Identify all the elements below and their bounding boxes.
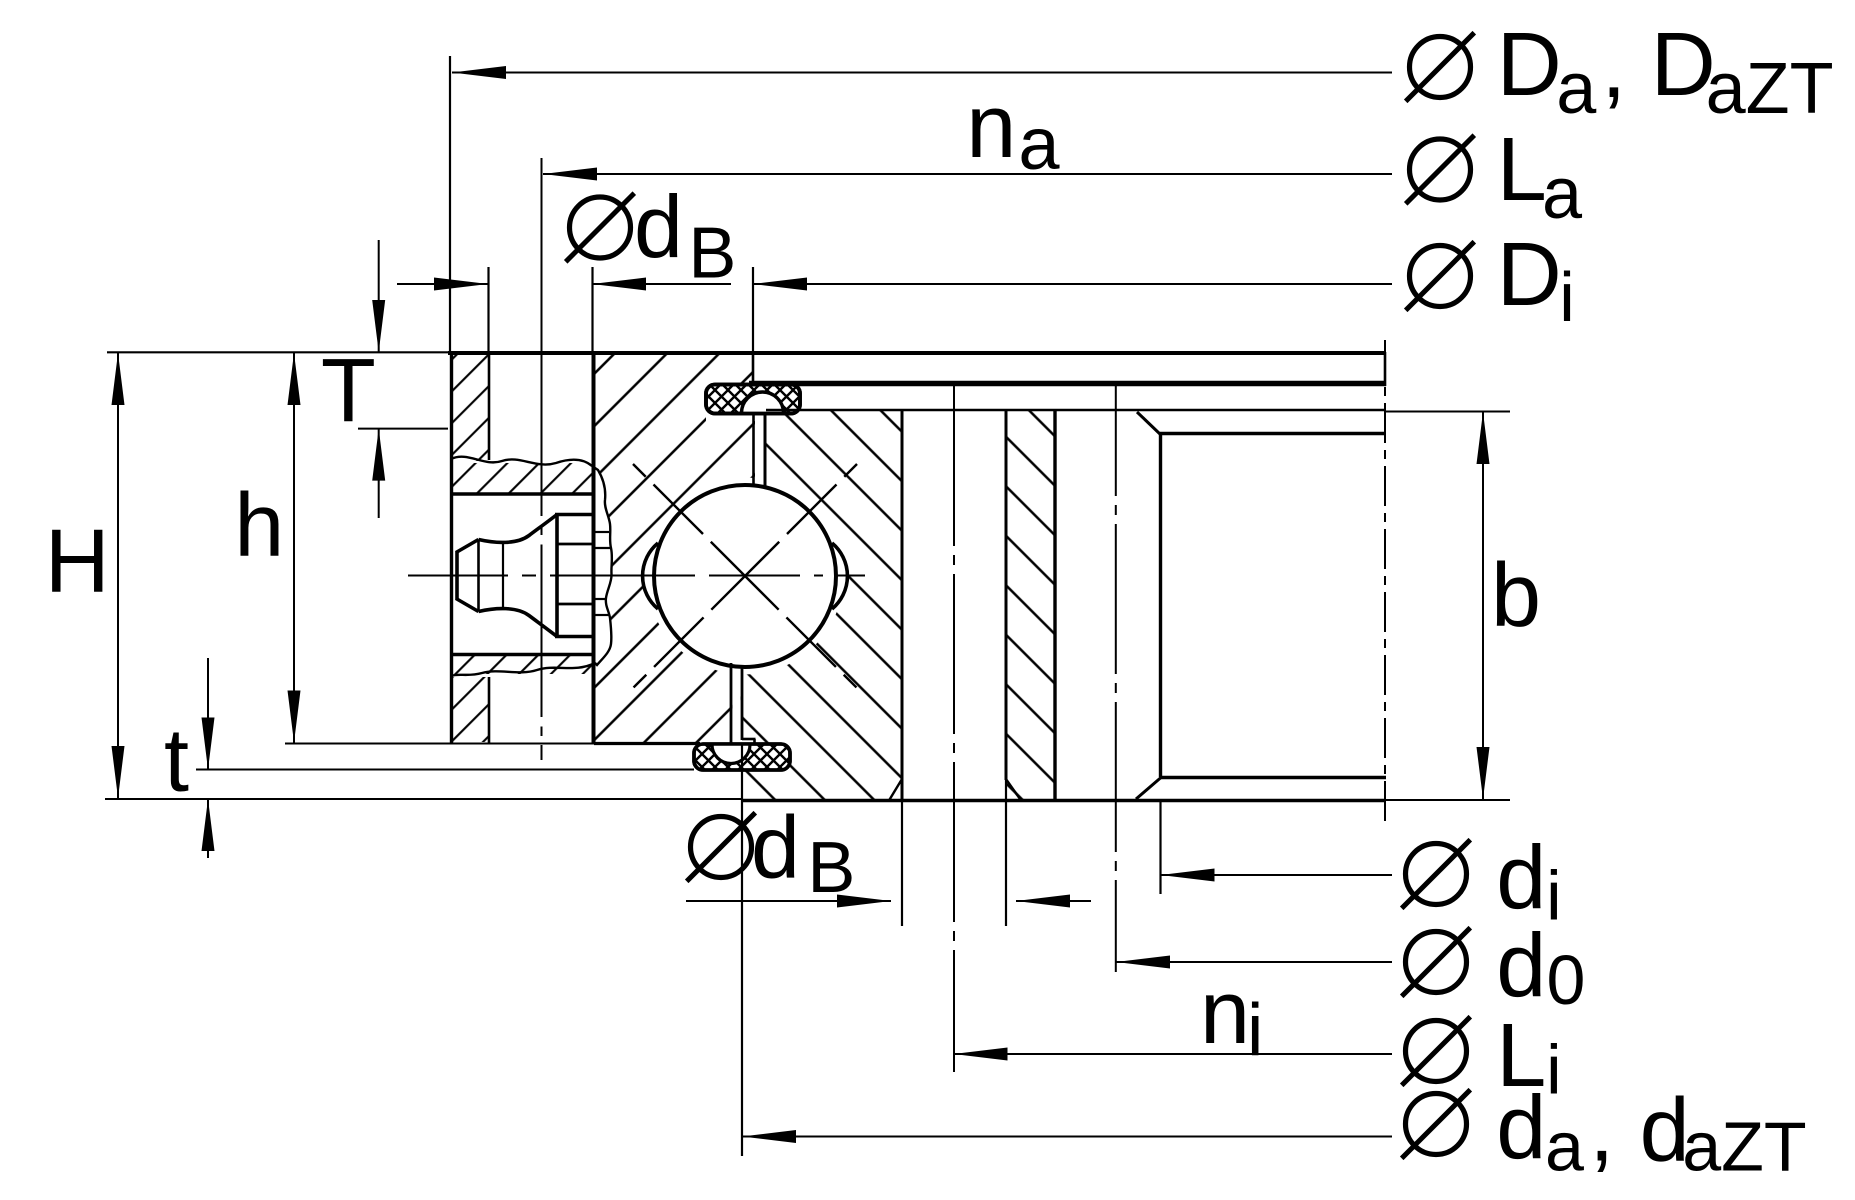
- diameter symbol Di: [1406, 242, 1475, 311]
- ring flange hatch band below counterbore: [451, 655, 592, 674]
- ball contact diagonal NE-SW: [633, 464, 857, 688]
- top seal: [706, 385, 800, 415]
- bolt hex facet line: [477, 540, 480, 612]
- counterbore bottom edge: [451, 653, 594, 657]
- svg-text:i: i: [1546, 857, 1562, 935]
- svg-text:aZT: aZT: [1706, 49, 1834, 129]
- svg-text:D: D: [1497, 15, 1562, 115]
- dimension line na/La: [543, 173, 1392, 175]
- dimension line di: [1161, 874, 1393, 876]
- svg-text:a: a: [1556, 49, 1597, 129]
- tapped hole thread lines: [595, 531, 609, 533]
- bolt washer split line top: [557, 543, 594, 546]
- bolt neck curve bottom: [479, 609, 558, 637]
- bolt washer split line bottom: [557, 603, 594, 606]
- bolt head chamfer bottom: [456, 599, 479, 612]
- ball centre line horizontal: [408, 575, 865, 577]
- ring flange hatch band above counterbore: [451, 463, 592, 494]
- extension line b bottom: [1386, 799, 1510, 801]
- svg-text:0: 0: [1547, 941, 1586, 1019]
- diameter symbol La: [1406, 135, 1475, 204]
- bolt washer bottom edge: [555, 635, 594, 639]
- svg-text:a: a: [1542, 154, 1583, 234]
- gear rim top chamfer: [1137, 412, 1161, 435]
- hole chamfer left: [889, 779, 902, 801]
- top joint gap lines: [752, 413, 755, 484]
- diameter symbol Da: [1406, 33, 1475, 102]
- diameter symbol dB top: [566, 193, 635, 262]
- ring flange hatch top-left column: [453, 353, 488, 461]
- dimension line Da: [452, 72, 1392, 74]
- raceway clearance white: [647, 478, 844, 675]
- tapped hole break-out white: [594, 462, 612, 665]
- gear root edge: [1159, 435, 1162, 777]
- svg-text:d: d: [634, 177, 683, 276]
- dimension line dB top left part: [397, 283, 488, 285]
- tip circle centre line da: [1384, 340, 1386, 823]
- inner ring band edge: [1053, 410, 1056, 800]
- svg-text:b: b: [1491, 546, 1541, 646]
- bottom surface edge: [742, 799, 1385, 803]
- dimension T upper arrow: [378, 240, 380, 352]
- bolt washer top edge: [555, 513, 594, 517]
- bolt head left face: [455, 551, 459, 600]
- bolt head chamfer top: [456, 540, 479, 553]
- svg-text:B: B: [807, 828, 855, 908]
- dimension t lower arrow: [207, 799, 209, 858]
- dimension t upper arrow: [207, 658, 209, 770]
- top surface edge: [448, 351, 1385, 355]
- diameter symbol dB bottom: [687, 813, 756, 882]
- svg-text:,: ,: [1589, 1081, 1614, 1181]
- svg-text:i: i: [1559, 258, 1575, 336]
- diameter symbol da: [1402, 1090, 1471, 1159]
- svg-text:T: T: [321, 341, 376, 441]
- break line wavy top: [451, 457, 592, 466]
- t extension line top: [196, 769, 694, 771]
- gear rim top edge: [1160, 432, 1385, 435]
- extension line dB bottom left: [901, 800, 903, 926]
- dimension line d0: [1116, 961, 1392, 963]
- dimension line dB top right part: [592, 283, 731, 285]
- outer ring section hatching: [594, 353, 757, 742]
- hole chamfer right: [1006, 779, 1021, 801]
- extension line dB top right: [591, 267, 593, 353]
- dimension T lower arrow: [378, 429, 380, 518]
- extension line b top: [1386, 411, 1510, 413]
- outer ring top right corner edge: [752, 353, 755, 383]
- bottom joint gap pocket white: [743, 738, 755, 744]
- fixing hole left edge: [488, 353, 491, 460]
- h extension line bottom: [285, 743, 594, 745]
- bottom joint gap white: [733, 664, 741, 745]
- svg-text:a: a: [1018, 102, 1060, 185]
- dimension line b: [1482, 412, 1484, 799]
- svg-text:i: i: [1247, 989, 1263, 1072]
- gear rim bottom chamfer: [1136, 778, 1161, 800]
- gear rim bottom edge: [1160, 776, 1386, 779]
- inner ring section hatching right band: [1006, 410, 1055, 800]
- svg-text:a: a: [1545, 1108, 1584, 1186]
- seal carrier strip thick line: [749, 381, 1386, 387]
- svg-text:n: n: [966, 77, 1016, 177]
- outer ring bottom face: [594, 742, 700, 745]
- dimension line T: [358, 428, 448, 430]
- svg-text:D: D: [1497, 225, 1562, 325]
- ring flange hatch bottom-left column: [453, 677, 488, 742]
- inner ring top face: [766, 409, 1385, 412]
- fixing bolt centre line: [541, 158, 543, 760]
- dimension line Di: [753, 283, 1392, 285]
- svg-text:i: i: [1546, 1031, 1562, 1109]
- raceway arc right: [832, 543, 847, 609]
- bolt neck curve top: [479, 515, 558, 543]
- svg-text:B: B: [688, 214, 736, 294]
- dimension line Li: [954, 1053, 1393, 1055]
- svg-text:d: d: [751, 798, 800, 897]
- top joint gap white: [755, 411, 764, 487]
- pitch circle centre line d0: [1115, 386, 1117, 972]
- diameter symbol Li: [1402, 1017, 1471, 1086]
- diameter symbol di: [1402, 840, 1471, 909]
- outer bore extension line: [741, 745, 743, 1156]
- svg-text:H: H: [45, 512, 110, 612]
- bottom seal: [694, 743, 790, 770]
- dimension line da: [742, 1136, 1392, 1138]
- extension line di: [1159, 801, 1161, 894]
- right end face of strip: [1384, 352, 1387, 386]
- svg-text:aZT: aZT: [1682, 1108, 1806, 1186]
- inner hole centre line: [953, 386, 955, 1072]
- dimension line dB bottom right part: [1016, 900, 1091, 902]
- svg-text:h: h: [234, 476, 284, 576]
- bolt hex inner facet: [502, 541, 504, 610]
- bolt washer left face: [555, 513, 559, 638]
- dimension line dB bottom left part: [686, 900, 891, 902]
- svg-text:d: d: [1496, 829, 1546, 929]
- svg-text:,: ,: [1601, 17, 1626, 117]
- bottom surface extension line left: [105, 798, 742, 800]
- raceway arc left: [643, 543, 658, 609]
- white band above inner ring top: [754, 356, 1385, 408]
- seal pocket step: [742, 738, 756, 741]
- break line wavy bottom: [451, 663, 595, 676]
- inner ring fixing hole right edge: [1005, 411, 1008, 780]
- dimension line H: [117, 353, 119, 798]
- ball contact diagonal NW-SE: [633, 464, 857, 688]
- top surface extension line left: [107, 351, 448, 353]
- extension line dB bottom right: [1005, 780, 1007, 926]
- break line wavy right: [592, 466, 612, 665]
- svg-text:n: n: [1200, 963, 1250, 1063]
- diameter symbol d0: [1402, 928, 1471, 997]
- inner ring fixing hole left edge: [901, 411, 904, 800]
- inner ring section hatching left part: [742, 409, 902, 800]
- extension line Di: [752, 267, 754, 352]
- dimension line h: [293, 353, 295, 743]
- svg-text:L: L: [1497, 120, 1547, 220]
- extension line Da: [449, 56, 451, 352]
- svg-text:d: d: [1496, 917, 1546, 1017]
- bottom joint gap lines: [730, 663, 733, 745]
- svg-text:t: t: [164, 711, 189, 811]
- svg-text:d: d: [1496, 1079, 1546, 1179]
- counterbore top edge: [451, 492, 594, 496]
- ball: [654, 485, 836, 667]
- outer ring bore wall: [592, 353, 596, 744]
- extension line dB top left: [487, 267, 489, 353]
- flange left edge: [450, 351, 453, 744]
